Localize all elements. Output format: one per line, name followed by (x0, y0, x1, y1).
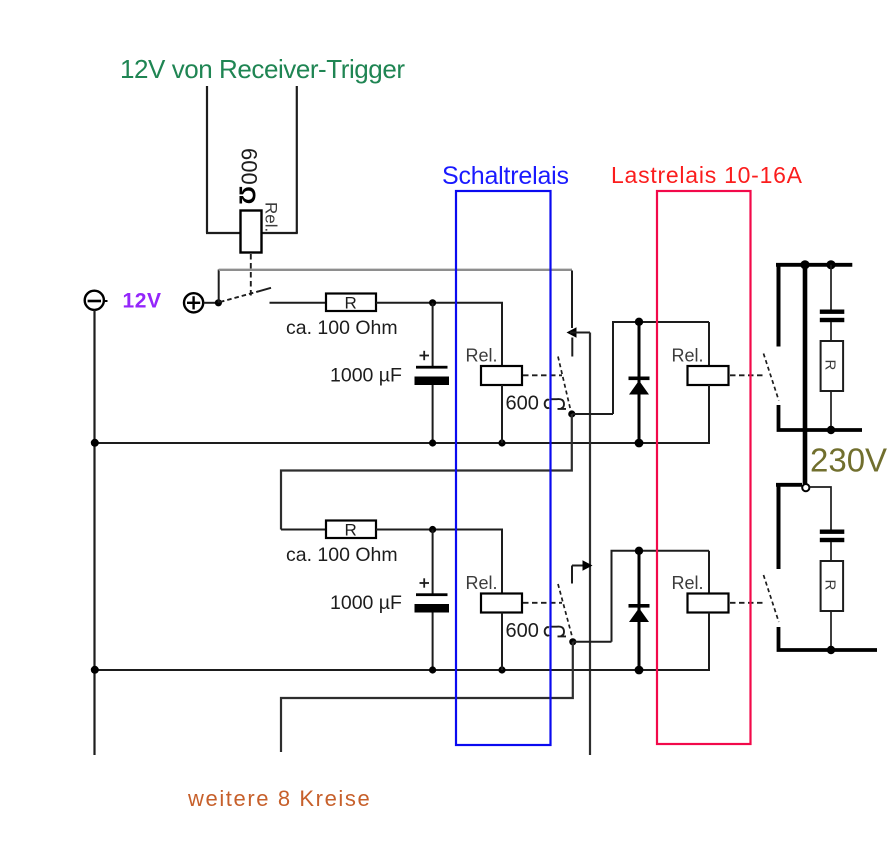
relay coil K4 (Schaltrelais 2) (481, 594, 522, 613)
wire node to C1 (432, 303, 434, 366)
wire next circuits feed (281, 642, 573, 752)
unit label ohm K2 (545, 399, 566, 409)
svg-text:R: R (345, 294, 357, 313)
wire main left rail (vertical) (93, 310, 95, 755)
svg-text:Rel.: Rel. (672, 573, 704, 593)
wire R3 to bottom (830, 391, 832, 430)
wire up to load branch 2 (612, 551, 710, 642)
node rail1 diode (635, 439, 644, 448)
svg-text:Rel.: Rel. (672, 346, 704, 366)
svg-text:1000 µF: 1000 µF (330, 592, 402, 614)
wire R2 to coil feed (376, 530, 502, 594)
svg-text:ca. 100 Ohm: ca. 100 Ohm (286, 544, 398, 566)
node S2 output (568, 410, 575, 417)
relay coil K2 (Schaltrelais 1) (481, 366, 522, 385)
wire C2 to rail2 (432, 613, 434, 671)
switch S4 fixed top (heavy) (777, 263, 781, 347)
wire S2 output right (572, 413, 613, 415)
wire trigger right (296, 86, 298, 233)
svg-text:Schaltrelais: Schaltrelais (442, 162, 569, 190)
node rail1 coil (498, 439, 505, 446)
node R1/C1 junction (429, 299, 436, 306)
svg-text:230V: 230V (810, 442, 887, 479)
wire C4 to R4 (830, 542, 832, 561)
mechanical link K4 (dashed) (523, 602, 562, 604)
switch S2 arm (dashed) (558, 357, 571, 412)
diode D1 (638, 322, 641, 443)
switch S4 fixed bottom (heavy) (779, 405, 863, 430)
wire node up (218, 270, 220, 303)
wire up to load branch (613, 322, 709, 414)
switch S5 fixed bottom (heavy) (779, 627, 878, 650)
svg-text:R: R (345, 521, 357, 540)
wire to relay K1 right pin (261, 232, 298, 234)
switch S2 fixed contact stub (571, 338, 573, 357)
svg-text:R: R (822, 360, 839, 371)
svg-text:600: 600 (237, 148, 262, 185)
rail1 (0V bus circuit 1) (95, 442, 710, 444)
relay coil K1 (241, 211, 262, 253)
node R2/C2 junction (429, 526, 436, 533)
switch S5 fixed top (heavy) (777, 483, 781, 569)
svg-text:weitere 8 Kreise: weitere 8 Kreise (187, 786, 371, 811)
mechanical link K1 (dashed) (250, 254, 252, 297)
svg-text:600: 600 (506, 620, 539, 642)
node rail1 C1 (429, 439, 436, 446)
arrow into cascade line (583, 560, 593, 570)
node rail2 diode (635, 666, 644, 675)
node diode D2 top (635, 547, 643, 555)
wire switch to R1 (270, 302, 327, 304)
wire K5 to rail2 (708, 613, 710, 672)
resistor R4 (snubber2) (821, 561, 844, 611)
node switch pivot (215, 299, 222, 306)
mechanical link K2 (dashed) (523, 374, 562, 376)
wire S2 common to cascade line (570, 332, 590, 334)
switch S2 feed (vertical from gray wire) (571, 271, 573, 329)
supply minus terminal (85, 291, 104, 310)
wire K2 to rail1 (501, 385, 503, 443)
wire node to C2 (432, 530, 434, 594)
wire plus to switch node (203, 302, 218, 304)
wire C1 to rail1 (432, 385, 434, 443)
mains terminal circle (802, 484, 809, 491)
group box Lastrelais (657, 191, 751, 744)
capacitor C1 polarity plus (420, 355, 430, 357)
node rail2 left (91, 666, 99, 674)
group box Schaltrelais (456, 191, 551, 745)
resistor R2 (326, 521, 376, 539)
wire to K3 coil top (708, 322, 710, 366)
mechanical link K3 (dashed) (730, 374, 763, 376)
supply plus terminal (184, 293, 203, 312)
node rail1 left (91, 439, 99, 447)
wire trigger left (206, 86, 208, 233)
wire K4 to rail2 (501, 613, 503, 671)
switch S1 arm (dashed) (220, 292, 258, 303)
capacitor C2 polarity plus (420, 582, 430, 584)
diode D2 (638, 551, 641, 670)
switch S3 common wire (572, 565, 586, 567)
switch S4 arm (dashed) (764, 354, 779, 401)
unit label ohm K4 (545, 627, 566, 637)
svg-text:Ω: Ω (235, 186, 261, 204)
svg-text:1000 µF: 1000 µF (330, 365, 402, 387)
relay coil K3 (Lastrelais 1) (688, 366, 729, 385)
wire to relay K1 left pin (206, 232, 241, 234)
wire S2 output down to circuit2 feed (281, 414, 572, 530)
svg-text:Rel.: Rel. (466, 573, 498, 593)
wire snubber1 top (830, 265, 832, 310)
switch S3 arm (dashed) (558, 584, 573, 638)
node snubber1 bottom (827, 426, 835, 434)
rail2 (0V bus circuit 2) (95, 669, 710, 671)
node snubber2 bottom (827, 646, 835, 654)
wire feed to R2 (281, 529, 326, 531)
wire to K5 coil top (708, 551, 710, 594)
svg-text:Rel.: Rel. (262, 202, 281, 232)
svg-text:R: R (822, 580, 839, 591)
resistor R3 (snubber1) (821, 341, 844, 391)
svg-text:600: 600 (506, 393, 539, 415)
relay coil K5 (Lastrelais 2) (688, 594, 729, 613)
svg-text:ca. 100 Ohm: ca. 100 Ohm (286, 317, 398, 339)
node rail2 C2 (429, 666, 436, 673)
node rail2 coil (498, 666, 505, 673)
capacitor C4 (snubber2) (820, 530, 845, 534)
resistor R1 (326, 294, 376, 312)
wire R1 to coil feed (376, 303, 502, 366)
mains top bus 1 (776, 263, 852, 267)
switch S3 fixed contact stub (571, 566, 573, 584)
capacitor C3 (snubber1) (820, 310, 845, 314)
wire K3 to rail1 (708, 385, 710, 444)
wire cascade vertical (589, 333, 591, 756)
svg-text:Rel.: Rel. (466, 346, 498, 366)
mains live column (heavy) (803, 263, 808, 484)
wire gray control run (219, 269, 572, 271)
wire terminal to snubber2 (810, 487, 832, 530)
wire S3 output right (573, 641, 612, 643)
node mains bus / snubber1 (826, 260, 835, 269)
wire C3 to R3 (830, 322, 832, 341)
arrow into S2 common (567, 327, 577, 337)
svg-text:12V: 12V (123, 290, 162, 313)
capacitor C2 plates (416, 593, 448, 596)
node diode D1 top (635, 318, 643, 326)
svg-text:12V von Receiver-Trigger: 12V von Receiver-Trigger (120, 54, 405, 84)
svg-text:Lastrelais 10-16A: Lastrelais 10-16A (611, 162, 803, 188)
node mains bus / live (800, 260, 809, 269)
capacitor C1 plates (416, 366, 448, 369)
mechanical link K5 (dashed) (730, 602, 763, 604)
mains lower bus left (heavy) (776, 483, 802, 487)
wire R4 to bottom (830, 611, 832, 650)
node S3 output (569, 638, 576, 645)
switch S5 arm (dashed) (764, 575, 779, 622)
